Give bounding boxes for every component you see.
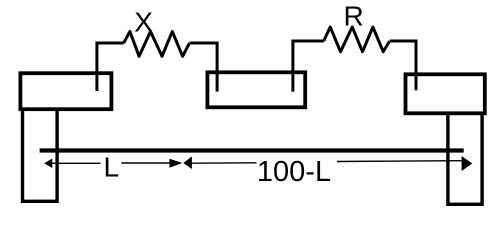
wire: X left lead down into left strip <box>97 43 124 91</box>
dimension arrow right (points right) <box>462 156 473 171</box>
dimension line 100-L (right segment) <box>337 160 462 163</box>
right leg block (vertical rectangle) <box>448 113 482 204</box>
middle copper strip <box>207 72 305 107</box>
wire: R left lead down into middle strip <box>293 41 324 92</box>
dimension line L (left segment) <box>52 162 100 164</box>
svg-text:100-L: 100-L <box>257 156 331 188</box>
wire: R right lead down into right strip <box>390 41 416 90</box>
dimension line 100-L (left segment) <box>192 162 257 164</box>
left leg block (vertical rectangle) <box>23 109 58 201</box>
wire: bridge wire (thick) <box>40 148 464 152</box>
svg-text:L: L <box>104 152 120 183</box>
dimension arrow left (points left) <box>44 159 52 169</box>
svg-text:R: R <box>343 0 363 31</box>
wire: X right lead down into middle strip <box>190 43 218 92</box>
resistor R (zigzag) <box>324 27 390 52</box>
resistor X (zigzag) <box>124 32 190 57</box>
left copper strip (terminal block) <box>20 73 111 109</box>
dimension arrow middle (points right) <box>169 159 182 168</box>
dimension arrow middle (points left) <box>183 156 192 169</box>
svg-text:X: X <box>134 7 153 38</box>
right copper strip (terminal block) <box>406 74 485 113</box>
dimension line L (right segment) <box>121 162 169 164</box>
